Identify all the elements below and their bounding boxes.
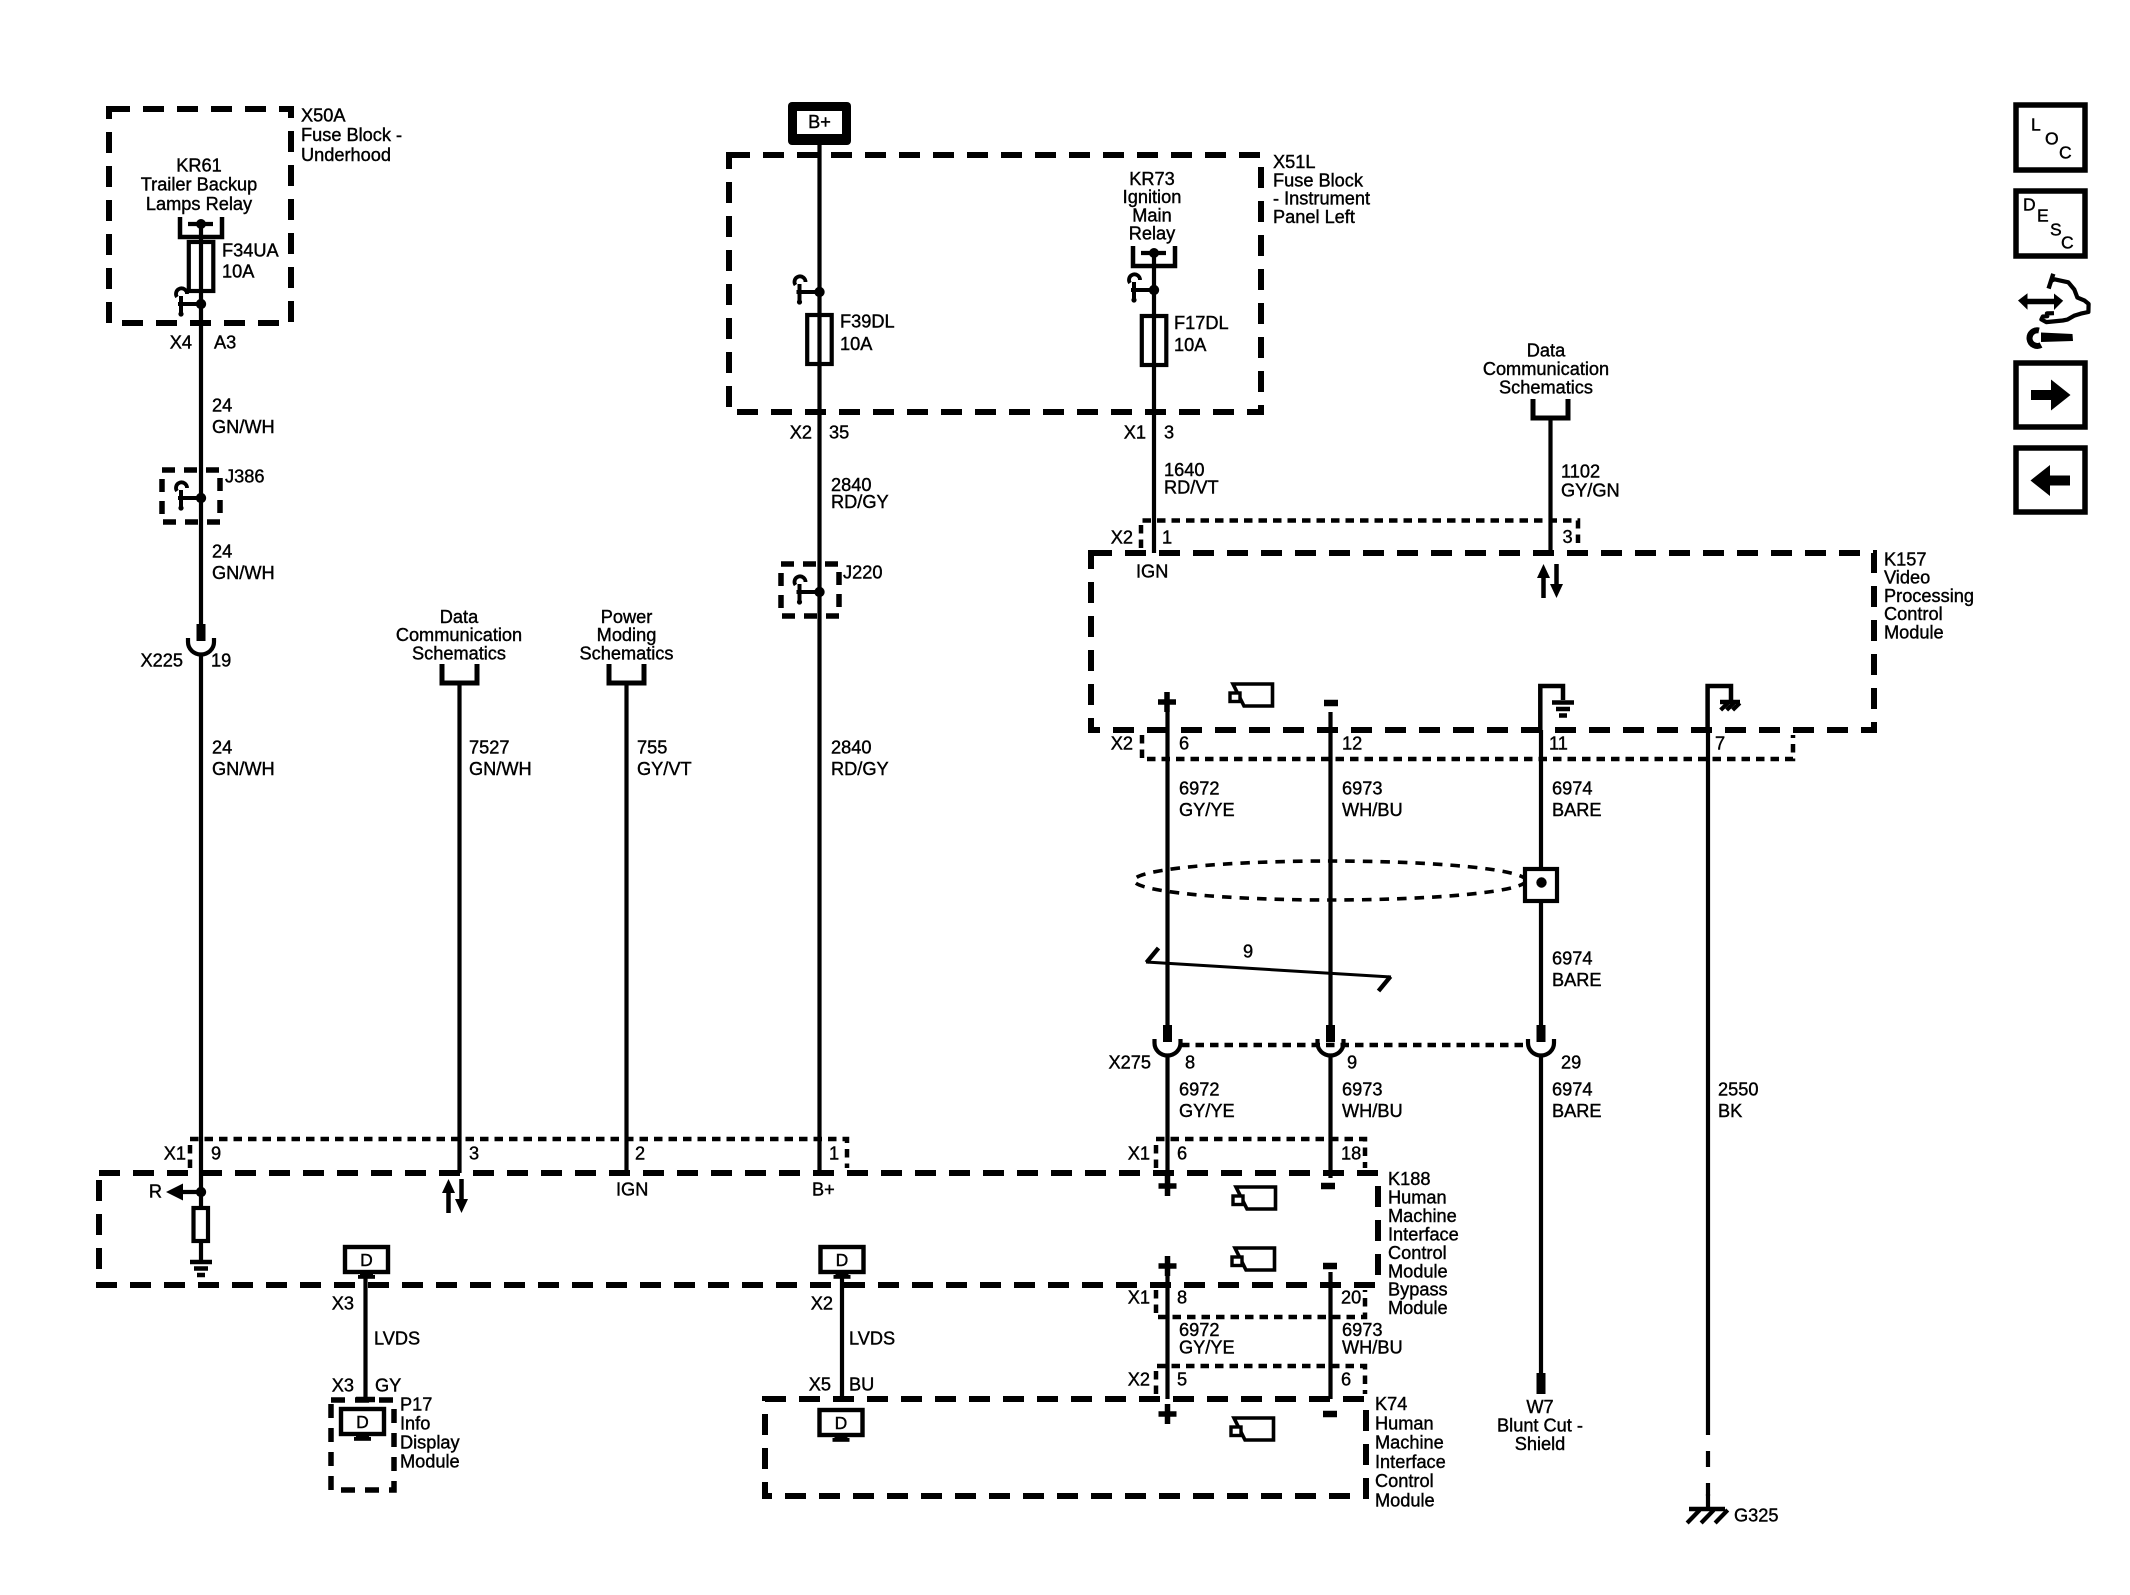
svg-text:F17DL: F17DL <box>1174 313 1229 333</box>
svg-text:Schematics: Schematics <box>579 644 673 664</box>
svg-text:GN/WH: GN/WH <box>212 759 275 779</box>
svg-text:Communication: Communication <box>1483 359 1609 379</box>
svg-text:C: C <box>2059 143 2072 163</box>
svg-text:BARE: BARE <box>1552 1101 1602 1121</box>
svg-text:J220: J220 <box>843 563 882 583</box>
svg-text:1: 1 <box>829 1144 839 1164</box>
svg-text:L: L <box>2031 115 2041 135</box>
svg-text:Data: Data <box>1527 341 1566 361</box>
svg-text:X2: X2 <box>811 1294 833 1314</box>
svg-text:GY/GN: GY/GN <box>1561 480 1620 500</box>
svg-text:C: C <box>2061 233 2074 253</box>
svg-text:KR61: KR61 <box>176 156 222 176</box>
svg-text:X275: X275 <box>1109 1053 1151 1073</box>
svg-text:BU: BU <box>849 1375 874 1395</box>
wire <box>199 224 203 242</box>
minus pin row1 <box>1321 1183 1335 1190</box>
display D icon K74 <box>820 1410 863 1435</box>
minus pin row2 <box>1323 1263 1337 1270</box>
plus pin row1 <box>1159 1183 1177 1189</box>
svg-text:K74: K74 <box>1375 1394 1407 1414</box>
plus pin row2 <box>1159 1263 1177 1269</box>
svg-text:GY/YE: GY/YE <box>1179 800 1235 820</box>
svg-text:24: 24 <box>212 738 232 758</box>
svg-text:Communication: Communication <box>396 625 522 645</box>
svg-text:X2: X2 <box>1111 528 1133 548</box>
svg-text:6: 6 <box>1177 1144 1187 1164</box>
svg-text:RD/GY: RD/GY <box>831 492 889 512</box>
wire 6972 <box>1165 1272 1169 1399</box>
svg-text:D: D <box>835 1413 848 1433</box>
serial data arrows <box>1541 578 1546 598</box>
svg-text:19: 19 <box>211 651 231 671</box>
svg-text:Control: Control <box>1375 1471 1434 1491</box>
ground G325 <box>1689 1507 1725 1511</box>
connector X225 pin 19 <box>197 624 206 641</box>
module P17 dashed box <box>331 1400 394 1490</box>
svg-text:9: 9 <box>211 1144 221 1164</box>
camera icon K157 <box>1233 684 1273 706</box>
module K74 dashed box <box>765 1399 1366 1496</box>
svg-text:6972: 6972 <box>1179 779 1219 799</box>
relay KR61 contact <box>180 217 222 237</box>
svg-text:Video: Video <box>1884 568 1930 588</box>
svg-text:GN/WH: GN/WH <box>212 563 275 583</box>
svg-text:Trailer Backup: Trailer Backup <box>141 175 258 195</box>
fuse F34UA <box>189 242 214 291</box>
camera icon row1 <box>1236 1187 1276 1209</box>
wire to X4/A3 <box>199 304 203 624</box>
svg-text:35: 35 <box>829 423 849 443</box>
signal ground lead pin 11 <box>1540 686 1563 730</box>
svg-text:2840: 2840 <box>831 738 871 758</box>
svg-text:J386: J386 <box>225 467 264 487</box>
fuse F17DL <box>1152 290 1156 318</box>
svg-text:GN/WH: GN/WH <box>469 759 532 779</box>
svg-text:2: 2 <box>635 1144 645 1164</box>
svg-text:D: D <box>360 1250 373 1270</box>
svg-text:Power: Power <box>601 607 653 627</box>
svg-text:X1: X1 <box>1124 423 1146 443</box>
svg-text:WH/BU: WH/BU <box>1342 1101 1403 1121</box>
svg-text:LVDS: LVDS <box>849 1329 895 1349</box>
resistor <box>199 1192 203 1208</box>
ground <box>190 1260 212 1265</box>
svg-text:Underhood: Underhood <box>301 145 391 165</box>
sidebar button LOC <box>2016 105 2085 170</box>
plus pin <box>1158 699 1176 705</box>
svg-text:6: 6 <box>1341 1370 1351 1390</box>
svg-text:X5: X5 <box>809 1375 831 1395</box>
module K188 dashed box <box>99 1173 1378 1285</box>
connector X2 strip (5,6) <box>1156 1366 1365 1394</box>
svg-text:X3: X3 <box>332 1376 354 1396</box>
svg-text:Module: Module <box>1388 1261 1448 1281</box>
camera icon K74 <box>1234 1418 1274 1440</box>
svg-text:GY/VT: GY/VT <box>637 759 692 779</box>
wire <box>457 683 461 1173</box>
sidebar button previous <box>2016 448 2085 512</box>
svg-text:B+: B+ <box>808 112 831 132</box>
svg-text:WH/BU: WH/BU <box>1342 1338 1403 1358</box>
connector X1 strip (8,20) <box>1156 1290 1365 1317</box>
svg-text:6973: 6973 <box>1342 1080 1382 1100</box>
wire <box>624 683 628 1173</box>
serial data arrows <box>446 1193 451 1213</box>
sidebar button DESC <box>2016 191 2085 256</box>
connector X1 strip (6,18) <box>1156 1139 1365 1168</box>
svg-text:11: 11 <box>1549 734 1568 754</box>
svg-text:8: 8 <box>1185 1053 1195 1073</box>
wire to X1/3 <box>1152 365 1156 553</box>
svg-text:- Instrument: - Instrument <box>1273 189 1370 209</box>
plus pin K74 <box>1159 1411 1177 1417</box>
svg-text:6974: 6974 <box>1552 949 1592 969</box>
svg-text:X51L: X51L <box>1273 152 1315 172</box>
svg-text:Panel Left: Panel Left <box>1273 207 1355 227</box>
svg-text:Lamps Relay: Lamps Relay <box>146 194 253 214</box>
svg-text:D: D <box>2023 195 2036 215</box>
relay KR73 contact <box>1133 246 1175 266</box>
camera icon row2 <box>1235 1248 1275 1270</box>
svg-text:X4: X4 <box>170 333 192 353</box>
svg-text:LVDS: LVDS <box>374 1329 420 1349</box>
terminal bar at P17 connector <box>356 1397 375 1403</box>
svg-text:10A: 10A <box>840 334 873 354</box>
wire from B+ <box>817 145 821 292</box>
wire 6972 <box>1165 1057 1169 1173</box>
svg-text:X2: X2 <box>790 423 812 443</box>
svg-text:X3: X3 <box>332 1294 354 1314</box>
wire to X2/35 <box>817 364 821 1173</box>
svg-text:Module: Module <box>1884 622 1944 642</box>
svg-text:Main: Main <box>1132 205 1171 225</box>
svg-text:X1: X1 <box>164 1144 186 1164</box>
connector X1 strip left <box>190 1139 847 1168</box>
wire <box>199 291 203 304</box>
svg-text:6: 6 <box>1179 734 1189 754</box>
dashed wire to G325 <box>1706 1419 1710 1496</box>
svg-text:D: D <box>836 1250 849 1270</box>
svg-text:KR73: KR73 <box>1129 169 1175 189</box>
terminal below KR73 <box>1152 253 1156 290</box>
svg-text:K188: K188 <box>1388 1169 1430 1189</box>
wire 6974 <box>1539 730 1543 1025</box>
svg-text:RD/VT: RD/VT <box>1164 477 1219 497</box>
svg-text:Interface: Interface <box>1388 1224 1459 1244</box>
shield termination box <box>1525 869 1557 901</box>
svg-text:Machine: Machine <box>1388 1206 1457 1226</box>
svg-text:S: S <box>2050 220 2062 240</box>
svg-text:A3: A3 <box>214 333 236 353</box>
battery feed B+ box <box>788 102 851 145</box>
svg-text:Schematics: Schematics <box>412 644 506 664</box>
svg-text:Data: Data <box>440 607 479 627</box>
svg-text:Module: Module <box>1388 1298 1448 1318</box>
svg-text:P17: P17 <box>400 1395 432 1415</box>
svg-text:8: 8 <box>1177 1288 1187 1308</box>
svg-text:Schematics: Schematics <box>1499 378 1593 398</box>
svg-text:Bypass: Bypass <box>1388 1280 1448 1300</box>
svg-text:O: O <box>2045 129 2059 149</box>
blunt cut terminal W7 <box>1537 1373 1546 1394</box>
display D icon P17 <box>341 1409 384 1434</box>
svg-text:Relay: Relay <box>1129 224 1176 244</box>
svg-text:GY/YE: GY/YE <box>1179 1101 1235 1121</box>
sidebar icon connector view (arrows + outline + wrench) <box>2018 274 2089 346</box>
module K157 dashed box <box>1091 553 1874 730</box>
svg-text:Fuse Block: Fuse Block <box>1273 170 1364 190</box>
svg-text:GY: GY <box>375 1376 401 1396</box>
svg-text:Info: Info <box>400 1414 430 1434</box>
svg-text:R: R <box>149 1182 162 1202</box>
svg-text:Machine: Machine <box>1375 1433 1444 1453</box>
svg-text:IGN: IGN <box>616 1180 648 1200</box>
wire stubs row1 <box>1165 1173 1169 1178</box>
svg-text:X2: X2 <box>1128 1370 1150 1390</box>
svg-text:24: 24 <box>212 396 232 416</box>
svg-text:BARE: BARE <box>1552 800 1602 820</box>
svg-text:GN/WH: GN/WH <box>212 417 275 437</box>
wire LVDS left <box>363 1278 367 1399</box>
splice J386 dashed box <box>162 470 220 522</box>
connector X2 strip bottom of K157 <box>1142 735 1793 759</box>
svg-text:3: 3 <box>1164 423 1174 443</box>
svg-text:Module: Module <box>1375 1491 1435 1511</box>
svg-text:6972: 6972 <box>1179 1080 1219 1100</box>
svg-text:9: 9 <box>1347 1053 1357 1073</box>
terminal in X50A <box>196 299 206 309</box>
svg-text:1102: 1102 <box>1561 462 1600 482</box>
svg-text:E: E <box>2037 206 2049 226</box>
svg-text:Interface: Interface <box>1375 1452 1446 1472</box>
wire 6974 to W7 <box>1539 1057 1543 1373</box>
display D icon left <box>345 1247 388 1272</box>
svg-text:Module: Module <box>400 1452 460 1472</box>
svg-text:Blunt Cut -: Blunt Cut - <box>1497 1416 1583 1436</box>
svg-text:12: 12 <box>1342 734 1362 754</box>
display D icon right <box>821 1247 864 1272</box>
svg-text:Shield: Shield <box>1515 1434 1566 1454</box>
shield ellipse <box>1134 861 1526 900</box>
svg-text:D: D <box>356 1412 369 1432</box>
terminal in X51L <box>814 287 824 297</box>
connector X275 <box>1163 1025 1172 1042</box>
svg-text:GY/YE: GY/YE <box>1179 1338 1235 1358</box>
svg-text:3: 3 <box>1563 527 1573 547</box>
svg-text:1: 1 <box>1162 528 1172 548</box>
fuse F39DL <box>817 292 821 317</box>
svg-text:Control: Control <box>1884 604 1943 624</box>
svg-text:W7: W7 <box>1526 1397 1553 1417</box>
svg-text:5: 5 <box>1177 1370 1187 1390</box>
wire <box>199 655 203 1173</box>
svg-text:X1: X1 <box>1128 1288 1150 1308</box>
minus pin <box>1324 700 1338 707</box>
wire 6972 <box>1165 712 1169 1025</box>
svg-text:Processing: Processing <box>1884 586 1974 606</box>
svg-text:Fuse Block -: Fuse Block - <box>301 125 402 145</box>
svg-text:F39DL: F39DL <box>840 312 895 332</box>
wire 6973 <box>1328 1272 1332 1399</box>
svg-text:10A: 10A <box>1174 335 1207 355</box>
svg-text:29: 29 <box>1561 1053 1581 1073</box>
svg-text:Human: Human <box>1375 1413 1434 1433</box>
svg-text:B+: B+ <box>812 1180 835 1200</box>
wire LVDS right <box>840 1278 844 1402</box>
svg-text:7527: 7527 <box>469 738 509 758</box>
svg-text:WH/BU: WH/BU <box>1342 800 1403 820</box>
svg-text:10A: 10A <box>222 262 255 282</box>
svg-text:24: 24 <box>212 542 232 562</box>
minus pin K74 <box>1323 1411 1337 1418</box>
svg-text:X2: X2 <box>1111 734 1133 754</box>
splice J220 dashed box <box>781 564 839 616</box>
svg-text:755: 755 <box>637 738 667 758</box>
svg-text:Moding: Moding <box>597 625 657 645</box>
svg-text:F34UA: F34UA <box>222 241 279 261</box>
connector X2 strip top of K157 <box>1141 521 1578 549</box>
svg-text:6973: 6973 <box>1342 779 1382 799</box>
sidebar button next <box>2016 363 2085 427</box>
fuse block X51L dashed box <box>729 155 1261 412</box>
splice J220 terminal <box>814 587 824 597</box>
svg-text:18: 18 <box>1341 1144 1361 1164</box>
svg-text:G325: G325 <box>1734 1506 1779 1526</box>
svg-text:9: 9 <box>1243 942 1253 962</box>
svg-text:20: 20 <box>1341 1288 1361 1308</box>
svg-text:2550: 2550 <box>1718 1080 1758 1100</box>
svg-text:BARE: BARE <box>1552 970 1602 990</box>
splice J386 terminal <box>196 493 206 503</box>
svg-text:Control: Control <box>1388 1243 1447 1263</box>
svg-text:Display: Display <box>400 1433 461 1453</box>
svg-text:IGN: IGN <box>1136 562 1168 582</box>
svg-text:RD/GY: RD/GY <box>831 759 889 779</box>
wire 2550 <box>1706 730 1710 1419</box>
svg-text:7: 7 <box>1715 734 1725 754</box>
wire 6973 <box>1328 1057 1332 1173</box>
svg-text:6974: 6974 <box>1552 1080 1592 1100</box>
svg-text:X50A: X50A <box>301 106 346 126</box>
svg-text:3: 3 <box>469 1144 479 1164</box>
svg-text:6974: 6974 <box>1552 779 1592 799</box>
svg-text:X1: X1 <box>1128 1144 1150 1164</box>
svg-text:Human: Human <box>1388 1187 1447 1207</box>
svg-text:Ignition: Ignition <box>1123 187 1182 207</box>
fuse block X50A dashed box <box>109 109 291 323</box>
wire 6973 <box>1328 712 1332 1025</box>
chassis ground lead pin 7 <box>1708 686 1731 730</box>
svg-text:X225: X225 <box>141 651 183 671</box>
svg-text:BK: BK <box>1718 1101 1742 1121</box>
wire <box>1548 417 1552 553</box>
svg-text:K157: K157 <box>1884 550 1926 570</box>
